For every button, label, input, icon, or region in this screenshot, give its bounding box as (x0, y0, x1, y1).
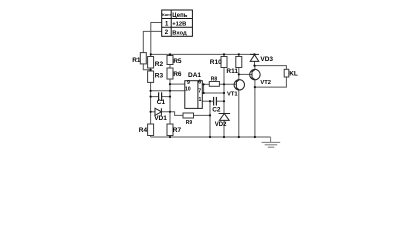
svg-text:VD3: VD3 (260, 56, 273, 63)
svg-text:Конт: Конт (162, 12, 171, 17)
svg-text:R1: R1 (132, 57, 141, 64)
svg-text:R2: R2 (155, 61, 164, 68)
svg-text:VT2: VT2 (260, 80, 271, 86)
svg-text:10: 10 (185, 87, 191, 93)
svg-text:KL: KL (289, 71, 298, 78)
svg-text:R6: R6 (173, 71, 182, 78)
svg-text:R11: R11 (226, 68, 238, 75)
svg-text:R10: R10 (210, 59, 222, 66)
svg-text:1: 1 (165, 21, 169, 27)
svg-text:7: 7 (198, 89, 201, 95)
svg-text:6: 6 (198, 79, 201, 85)
svg-text:C1: C1 (157, 99, 166, 106)
svg-text:+12В: +12В (172, 22, 186, 28)
svg-text:DA1: DA1 (188, 72, 201, 79)
svg-text:R5: R5 (173, 58, 182, 65)
svg-text:R4: R4 (139, 127, 148, 134)
svg-text:C2: C2 (212, 106, 221, 113)
svg-text:R8: R8 (211, 77, 218, 83)
svg-text:Цепь: Цепь (172, 13, 187, 19)
svg-text:2: 2 (165, 30, 169, 36)
svg-text:VD1: VD1 (154, 115, 167, 122)
svg-text:R7: R7 (173, 127, 182, 134)
svg-text:1: 1 (199, 97, 202, 103)
svg-text:VT1: VT1 (227, 91, 238, 97)
svg-text:R3: R3 (155, 73, 164, 80)
svg-text:9: 9 (187, 80, 190, 86)
svg-text:VD2: VD2 (215, 122, 227, 128)
svg-text:R9: R9 (186, 120, 193, 126)
svg-text:Вход: Вход (172, 31, 187, 37)
